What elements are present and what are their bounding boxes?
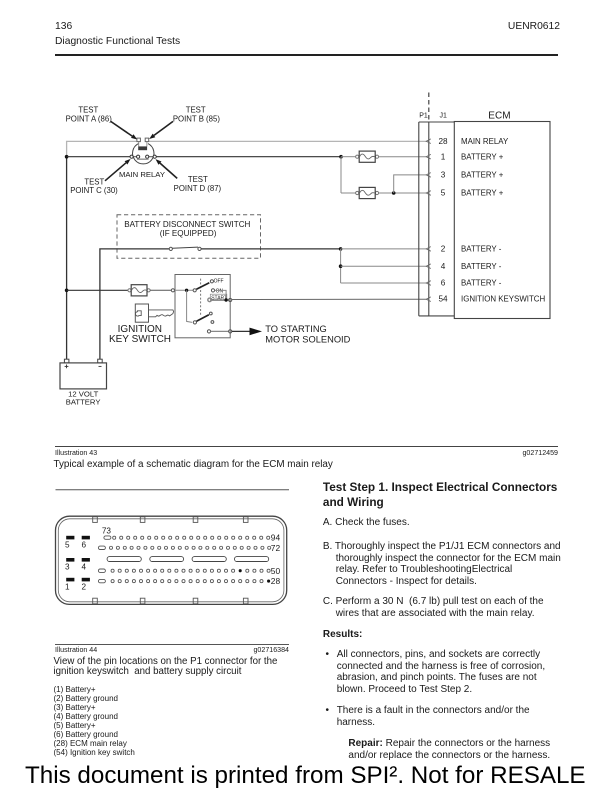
illustration 43 captions [55, 449, 97, 457]
connector pin chevrons [426, 139, 431, 302]
keyswitch internal wiring [175, 289, 194, 291]
relay coil terminal 85 [145, 138, 149, 142]
wire: relay contact line to junction [67, 156, 130, 158]
svg-text:1: 1 [65, 582, 70, 591]
wire to pin 4 [341, 265, 427, 267]
wire: coil line (pin 28) right segment [149, 140, 427, 142]
header doc number [460, 21, 560, 32]
keyswitch mechanical dashed link [200, 279, 202, 317]
pin function labels [461, 137, 545, 304]
solenoid arrowhead [250, 328, 263, 336]
relay coil [138, 146, 147, 150]
header page number [55, 21, 72, 32]
12 volt battery [60, 359, 107, 389]
svg-text:BATTERY -: BATTERY - [461, 245, 502, 254]
svg-text:BATTERY -: BATTERY - [461, 279, 502, 288]
connector outer shell [56, 516, 287, 604]
connector bar P1 line [418, 122, 420, 316]
illustration 43 rule [55, 446, 558, 447]
battery disconnect switch dashed box [117, 215, 261, 258]
node: pin2 junction [339, 247, 343, 251]
node: keyswitch common junction [185, 289, 188, 292]
right labels [271, 533, 281, 587]
node: pin4 junction [339, 264, 343, 268]
svg-text:BATTERY +: BATTERY + [461, 152, 504, 161]
socket row 94-74 [113, 536, 270, 539]
connector inner shell [58, 519, 284, 602]
lower pole upper contact [209, 312, 212, 315]
bottom notches [93, 598, 98, 604]
node: battery+/relay contact junction [65, 155, 69, 159]
keyswitch OFF contact [210, 280, 213, 283]
connector bar top cap [419, 121, 455, 123]
connector illustration rule [56, 489, 290, 491]
relay contact terminal D (87) [153, 155, 156, 158]
keyswitch input terminal [171, 289, 174, 292]
connector bar bottom cap [419, 315, 455, 317]
label OFF [211, 279, 227, 302]
wire fuse3 to keyswitch [150, 289, 171, 291]
power pins 3,4 [66, 558, 74, 562]
wire to pin 6 [341, 282, 427, 284]
keyswitch wiper contact [193, 289, 196, 292]
svg-text:2: 2 [441, 245, 446, 254]
key icon [135, 304, 173, 322]
header rule [55, 54, 558, 56]
wire: coil line (pin 28) left segment [67, 141, 137, 156]
wire: switch to junction pin2 [201, 248, 341, 250]
illustration 44 rule [55, 644, 289, 645]
disconnect switch terminal right [198, 247, 201, 250]
svg-text:POINT B (85): POINT B (85) [173, 114, 220, 123]
wire to pin 2 [341, 248, 427, 250]
label TEST POINT A (86) [66, 105, 222, 195]
svg-text:TEST: TEST [78, 105, 98, 114]
svg-text:POINT C (30): POINT C (30) [70, 186, 118, 195]
node: keyswitch output junction [224, 298, 227, 301]
keyswitch START contact [208, 298, 212, 302]
svg-text:MAIN RELAY: MAIN RELAY [119, 170, 165, 179]
svg-text:MOTOR SOLENOID: MOTOR SOLENOID [265, 334, 350, 344]
svg-text:4: 4 [441, 262, 446, 271]
svg-text:BATTERY -: BATTERY - [461, 262, 502, 271]
svg-text:MAIN RELAY: MAIN RELAY [461, 137, 509, 146]
label P1 [419, 113, 447, 120]
wire: battery- vertical [100, 249, 169, 359]
wire: battery+ to fuse3 [67, 289, 128, 291]
battery terminal + [64, 359, 69, 363]
svg-text:28: 28 [438, 137, 448, 146]
svg-text:(IF EQUIPPED): (IF EQUIPPED) [160, 229, 217, 238]
pin numbers [438, 137, 448, 304]
power pins 1,2 [66, 578, 74, 582]
label IGNITION KEY SWITCH [109, 324, 171, 345]
node: fuse1/fuse2 branch junction [339, 155, 343, 159]
top notches [93, 517, 248, 604]
svg-text:ON: ON [216, 288, 224, 294]
solenoid output contact [207, 330, 210, 333]
keyswitch solenoid terminal [229, 330, 232, 333]
svg-text:54: 54 [438, 295, 448, 304]
lower pole start contact [211, 321, 214, 324]
svg-text:5: 5 [65, 541, 70, 550]
svg-text:IGNITION KEYSWITCH: IGNITION KEYSWITCH [461, 294, 545, 303]
lower pole blade [197, 315, 209, 322]
wire to solenoid output [211, 330, 229, 332]
fuse F1 [356, 151, 379, 162]
schematic SVG [0, 0, 612, 470]
+ sign [65, 365, 102, 369]
keyswitch output terminal (pin54) [229, 298, 232, 301]
disconnect switch terminal left [169, 247, 172, 250]
wire fuse1 to pin 1 [379, 156, 427, 158]
svg-text:J1: J1 [439, 113, 447, 120]
fuse F3 [128, 285, 150, 296]
svg-text:3: 3 [441, 171, 446, 180]
relay contact terminal C (30) [130, 155, 133, 158]
wire fuse2 to pin5 and branch to pin3 [379, 192, 427, 194]
svg-text:6: 6 [82, 541, 87, 550]
svg-text:P1: P1 [419, 113, 428, 120]
wire to solenoid arrow [232, 330, 250, 332]
label 12 VOLT BATTERY [66, 389, 101, 406]
svg-text:72: 72 [271, 543, 281, 553]
svg-text:1: 1 [441, 152, 446, 161]
disconnect switch blade [172, 247, 198, 248]
row slots [98, 536, 111, 583]
socket row 28-7 (pin 28 marked) [111, 580, 270, 583]
svg-text:6: 6 [441, 279, 446, 288]
svg-text:ECM: ECM [488, 110, 510, 121]
ignition key switch box [175, 275, 230, 338]
wire: battery+ vertical [66, 157, 68, 360]
relay inner contact right [146, 155, 149, 158]
pin labels 1-6 [65, 527, 111, 592]
svg-text:BATTERY: BATTERY [66, 398, 101, 407]
label TO STARTING MOTOR SOLENOID [265, 324, 350, 344]
wire keyswitch to pin 54 [232, 298, 427, 300]
keyswitch ON contact [211, 289, 214, 292]
label BATTERY DISCONNECT SWITCH [124, 220, 250, 238]
wire junction to fuse1 [341, 156, 356, 158]
power pins 5,6 [66, 536, 90, 582]
svg-text:POINT A (86): POINT A (86) [66, 114, 113, 123]
wire up to pin 3 [394, 175, 427, 193]
keyswitch wiper blade [196, 283, 209, 290]
relay contact blade [137, 158, 149, 160]
svg-text:KEY SWITCH: KEY SWITCH [109, 334, 171, 345]
wire: vertical to pins 4,6 [340, 249, 342, 283]
middle keying slots [107, 557, 269, 562]
fuse F2 [356, 187, 379, 198]
left column: illustration 44 [0, 480, 612, 650]
svg-text:5: 5 [441, 189, 446, 198]
svg-text:TO STARTING: TO STARTING [265, 324, 326, 334]
arrow to test point D [160, 163, 177, 178]
header section title [55, 36, 180, 47]
svg-text:TEST: TEST [188, 175, 208, 184]
svg-text:2: 2 [82, 582, 87, 591]
socket row 72-51 [109, 546, 270, 549]
P1/J1 connector dashed divider [428, 93, 430, 121]
wire START to output [211, 299, 230, 301]
socket row 50-29 (pin 54 marked) [111, 569, 270, 572]
node: battery+/fuse3 junction [65, 289, 69, 293]
keyswitch lower pole wiring [187, 290, 193, 322]
svg-text:BATTERY +: BATTERY + [461, 171, 504, 180]
relay coil terminal 86 [137, 138, 141, 142]
ECM box [454, 122, 550, 319]
svg-text:OFF: OFF [214, 279, 224, 285]
arrow to test point C [105, 163, 126, 181]
node: pin3 branch junction [392, 191, 396, 195]
relay coil legs [138, 142, 140, 147]
footer banner [25, 762, 586, 790]
svg-text:TEST: TEST [186, 105, 206, 114]
illustration 44 captions [55, 646, 97, 654]
svg-text:POINT D (87): POINT D (87) [174, 184, 222, 193]
svg-text:94: 94 [271, 533, 281, 543]
battery terminal - [98, 359, 103, 363]
svg-text:BATTERY +: BATTERY + [461, 189, 504, 198]
wire ON to output [215, 290, 227, 300]
arrow to test point A [111, 121, 133, 136]
svg-text:3: 3 [65, 562, 70, 571]
relay inner contact left [137, 155, 140, 158]
svg-text:50: 50 [271, 566, 281, 576]
wire: branch down to fuse2 [340, 157, 342, 193]
svg-text:73: 73 [102, 527, 112, 536]
main relay circle [133, 144, 154, 164]
right column [323, 480, 557, 511]
svg-text:BATTERY DISCONNECT SWITCH: BATTERY DISCONNECT SWITCH [124, 220, 250, 229]
arrow to test point B [154, 121, 173, 135]
lower pole common contact [193, 321, 196, 324]
connector bar J1 line [428, 122, 430, 316]
svg-text:28: 28 [271, 576, 281, 586]
START label box [210, 294, 227, 300]
svg-text:4: 4 [82, 562, 87, 571]
